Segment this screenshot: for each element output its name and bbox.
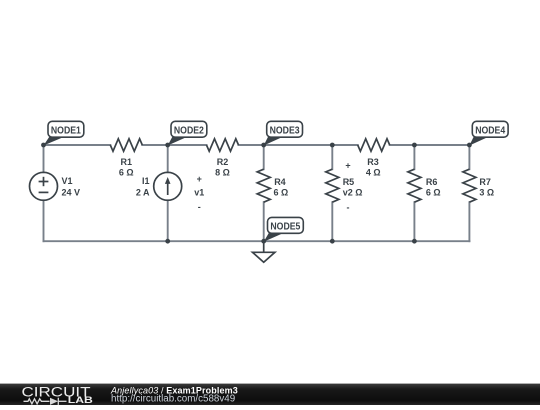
svg-text:8 Ω: 8 Ω	[215, 167, 230, 177]
svg-text:R7: R7	[479, 177, 491, 187]
svg-text:6 Ω: 6 Ω	[274, 187, 289, 197]
svg-text:I1: I1	[142, 176, 150, 186]
svg-text:NODE1: NODE1	[51, 125, 81, 136]
svg-text:R4: R4	[274, 177, 286, 187]
svg-text:R5: R5	[343, 177, 355, 187]
svg-text:NODE5: NODE5	[270, 222, 300, 233]
svg-text:NODE2: NODE2	[174, 125, 204, 136]
svg-text:6 Ω: 6 Ω	[426, 187, 441, 197]
svg-text:LAB: LAB	[68, 395, 93, 405]
svg-text:-: -	[347, 203, 350, 213]
svg-text:http://circuitlab.com/c588v49: http://circuitlab.com/c588v49	[111, 393, 235, 404]
svg-text:NODE3: NODE3	[270, 125, 300, 136]
svg-text:3 Ω: 3 Ω	[479, 187, 494, 197]
svg-text:6 Ω: 6 Ω	[119, 167, 134, 177]
svg-text:2 A: 2 A	[136, 188, 150, 198]
svg-text:R2: R2	[217, 157, 229, 167]
svg-text:R3: R3	[367, 157, 379, 167]
svg-text:+: +	[197, 174, 202, 184]
svg-text:R6: R6	[426, 177, 438, 187]
svg-text:V1: V1	[62, 176, 73, 186]
svg-text:v2 Ω: v2 Ω	[343, 187, 363, 197]
svg-text:v1: v1	[194, 188, 204, 198]
svg-text:R1: R1	[121, 157, 133, 167]
svg-text:4 Ω: 4 Ω	[366, 167, 381, 177]
svg-text:+: +	[345, 160, 350, 170]
svg-text:NODE4: NODE4	[475, 125, 505, 136]
svg-text:-: -	[198, 202, 201, 212]
svg-text:24 V: 24 V	[62, 188, 81, 198]
